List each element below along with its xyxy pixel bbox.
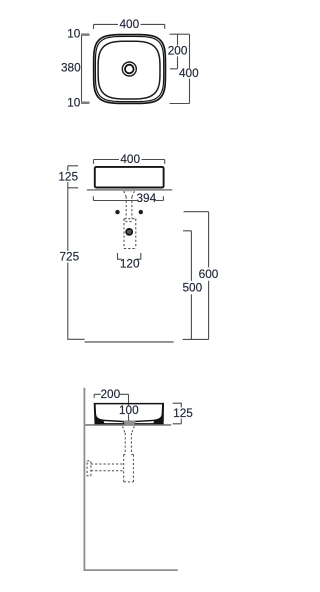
svg-text:394: 394 [136, 191, 156, 205]
mounting bolt right (front view) [139, 210, 143, 214]
drain trapezoid (side view) [123, 421, 135, 425]
floor line (front view) [85, 341, 174, 343]
svg-text:400: 400 [179, 66, 199, 80]
svg-text:10: 10 [67, 96, 81, 110]
dim line 400 right [170, 34, 199, 103]
svg-text:725: 725 [59, 249, 79, 263]
dashed trap body (side view) [124, 455, 134, 482]
dim line 380 left [61, 26, 89, 109]
svg-text:125: 125 [58, 169, 78, 183]
dim line 400 top [94, 17, 165, 31]
shared bottom tick 600/500 [183, 338, 209, 340]
basin rectangle (front view) [95, 167, 164, 188]
dim line 200 right [168, 34, 190, 69]
svg-text:400: 400 [120, 152, 140, 166]
svg-text:10: 10 [67, 26, 81, 40]
svg-text:100: 100 [119, 403, 139, 417]
bowl inner edge (top view) [98, 41, 160, 99]
dim line 125 / 725 left [58, 166, 84, 339]
dashed horizontal waste pipe to wall (side view) [91, 464, 124, 471]
dim line 200 (side view) [94, 387, 128, 401]
dim line 500 right [182, 231, 202, 340]
svg-text:500: 500 [182, 280, 202, 294]
svg-text:400: 400 [119, 17, 139, 31]
drain inner circle (top view) [125, 65, 134, 74]
svg-text:380: 380 [61, 60, 81, 74]
svg-text:200: 200 [100, 387, 120, 401]
dashed drain pipe (front view) [124, 191, 136, 248]
dashed tailpipe (side view) [125, 433, 131, 454]
counter line (side view) [84, 424, 171, 426]
dim line 100 (side view, drain centerline) [119, 394, 139, 421]
counter line (front view) [87, 189, 173, 191]
drain outer circle (top view) [122, 62, 136, 76]
mounting bolt left (front view) [115, 210, 119, 214]
dashed drain funnel (side view) [123, 426, 135, 433]
drain trapezoid under basin (front view) [123, 189, 134, 191]
basin outer edge (top view) [94, 35, 166, 104]
dim bracket 125 (side view) [173, 403, 194, 424]
dim 120 brackets [118, 253, 141, 270]
basin rim inner edge (top view) [95, 36, 163, 101]
basin section (side view) [94, 403, 164, 425]
dim line 394 [93, 191, 163, 205]
svg-text:600: 600 [199, 267, 219, 281]
dim line 600 right [184, 212, 219, 340]
dim line 400 front [94, 152, 165, 166]
svg-text:200: 200 [168, 44, 188, 58]
wall and floor lines [84, 388, 177, 570]
svg-text:125: 125 [173, 406, 193, 420]
dashed wall flange (side view) [87, 461, 91, 476]
drain fitting (front view) [125, 228, 133, 236]
svg-text:120: 120 [120, 256, 140, 270]
